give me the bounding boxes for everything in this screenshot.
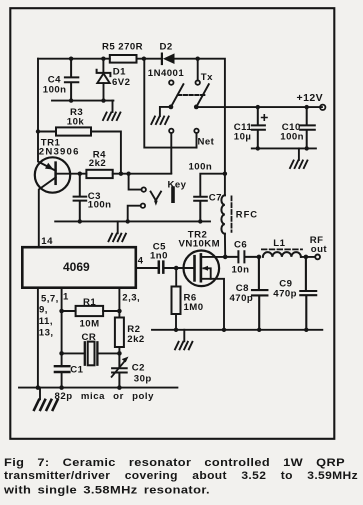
- wire ground stem D1: [112, 101, 114, 112]
- svg-text:Tx: Tx: [201, 72, 213, 83]
- capacitor C7: [194, 197, 207, 222]
- svg-text:1M0: 1M0: [184, 302, 204, 313]
- svg-text:Fig 7: Ceramic resonator contr: Fig 7: Ceramic resonator controlled 1W Q…: [4, 457, 345, 469]
- svg-text:10k: 10k: [67, 116, 85, 127]
- node C11 bottom: [256, 146, 260, 150]
- wire left rail emitter: [38, 59, 56, 171]
- wire Tx contact stub: [197, 59, 199, 81]
- node source bottom: [222, 328, 226, 332]
- wire ground stem C10: [298, 148, 300, 160]
- resistor R4: [86, 170, 112, 178]
- capacitor C3: [74, 174, 87, 222]
- node C7 bottom: [198, 219, 202, 223]
- svg-text:470p: 470p: [230, 293, 254, 304]
- ground D1: [103, 113, 120, 121]
- wire R3 right down to key line: [91, 132, 121, 174]
- wire gate ground rail: [55, 220, 210, 222]
- svg-text:10n: 10n: [232, 264, 250, 275]
- wire R4 right to relay: [113, 173, 172, 175]
- svg-text:with single 3.58MHz resonator.: with single 3.58MHz resonator.: [3, 485, 210, 497]
- wire ground stem PA: [183, 330, 185, 342]
- capacitor C1: [55, 366, 70, 372]
- relay arm right: [196, 84, 209, 107]
- resistor R5: [110, 55, 137, 63]
- resistor R6: [172, 268, 181, 330]
- ground C10: [290, 161, 307, 169]
- svg-text:10M: 10M: [80, 318, 100, 329]
- relay arm left: [171, 84, 184, 107]
- ground relay: [151, 117, 168, 125]
- svg-text:82p mica or poly: 82p mica or poly: [55, 391, 155, 402]
- svg-text:Key: Key: [168, 179, 187, 190]
- svg-text:VN10KM: VN10KM: [179, 238, 221, 249]
- node C4 top: [69, 57, 73, 61]
- ground PA: [175, 342, 192, 350]
- svg-text:D2: D2: [160, 41, 173, 52]
- node C10 top: [305, 105, 309, 109]
- relay contact net right: [194, 129, 198, 133]
- IC 4069 box: [22, 247, 136, 288]
- capacitor C5: [159, 262, 164, 273]
- key jack tip contact: [142, 187, 146, 191]
- node R3 join: [119, 172, 123, 176]
- node C9 bottom: [304, 328, 308, 332]
- transistor TR1: [35, 157, 70, 247]
- wire ground stem mid: [117, 221, 119, 233]
- wire PA ground rail: [152, 329, 322, 331]
- svg-text:L1: L1: [273, 238, 285, 249]
- key plug chevron: [151, 192, 161, 201]
- wire CR left: [62, 352, 85, 354]
- wire ground stem bottom left: [39, 388, 41, 400]
- resistor R1: [76, 306, 104, 316]
- relay common left: [169, 105, 174, 110]
- node R1 right: [117, 309, 122, 314]
- node gate R6: [174, 266, 179, 271]
- svg-text:100n: 100n: [43, 84, 67, 95]
- svg-text:RFC: RFC: [236, 208, 258, 219]
- svg-text:out: out: [311, 244, 328, 255]
- svg-text:6V2: 6V2: [112, 77, 130, 88]
- svg-text:11,: 11,: [39, 316, 53, 327]
- node R3 left: [36, 129, 40, 133]
- wire left net contact drop: [170, 133, 172, 173]
- node filter out: [304, 255, 309, 260]
- node C11 top: [256, 105, 260, 109]
- svg-text:100n: 100n: [280, 131, 304, 142]
- node C1 bottom: [59, 385, 64, 390]
- svg-text:1n0: 1n0: [150, 250, 168, 261]
- wire relay left common to ground: [160, 107, 171, 116]
- node C8 bottom: [257, 328, 261, 332]
- wire R1 right: [103, 310, 119, 312]
- svg-text:470p: 470p: [273, 288, 297, 299]
- wire key tip contact: [129, 174, 142, 190]
- svg-text:2k2: 2k2: [127, 334, 144, 345]
- node CR right: [117, 351, 122, 356]
- wire pin1 lower: [61, 372, 63, 388]
- capacitor C6: [225, 251, 259, 262]
- svg-text:30p: 30p: [134, 373, 152, 384]
- node C3 top: [78, 172, 82, 176]
- node C2 bottom: [117, 385, 122, 390]
- node junction R5-D2: [142, 57, 146, 61]
- node C3 bottom: [78, 219, 82, 223]
- wire C11 C10 ground: [252, 147, 316, 149]
- svg-text:1: 1: [63, 291, 69, 302]
- capacitor C9: [300, 257, 316, 330]
- inductor RFC: [221, 174, 231, 257]
- svg-text:2k2: 2k2: [89, 158, 106, 169]
- capacitor C4: [65, 59, 78, 101]
- svg-text:9,: 9,: [39, 305, 48, 316]
- relay contact net left: [169, 129, 173, 133]
- relay contact top left: [169, 80, 173, 84]
- wire R1 left: [62, 310, 76, 312]
- wire pin 2 3: [118, 288, 120, 318]
- transistor TR2: [184, 250, 226, 329]
- svg-text:C6: C6: [234, 239, 247, 250]
- resonator CR: [85, 342, 120, 366]
- wire +12V rail: [196, 106, 322, 108]
- svg-text:R1: R1: [83, 297, 96, 308]
- node R1 left: [59, 309, 64, 314]
- svg-text:2N3906: 2N3906: [39, 147, 80, 158]
- wire pin1 upper: [61, 288, 63, 367]
- wire net contacts to rail: [144, 59, 196, 148]
- wire R5 to D2: [137, 58, 161, 60]
- capacitor C10: [300, 107, 315, 148]
- svg-text:4069: 4069: [63, 260, 90, 274]
- wire C7 branch: [200, 174, 225, 197]
- key plug arrow: [154, 201, 158, 206]
- svg-text:100n: 100n: [88, 199, 112, 210]
- node pins rail: [36, 385, 41, 390]
- wire TR1 base to R4: [56, 173, 87, 175]
- svg-text:13,: 13,: [39, 328, 54, 339]
- terminal +12V: [320, 105, 325, 110]
- svg-text:1N4001: 1N4001: [148, 68, 185, 79]
- wire C4 D1 bottom: [52, 100, 113, 102]
- svg-text:+12V: +12V: [297, 92, 324, 104]
- ground bottom left: [34, 400, 57, 410]
- zener diode D1: [97, 59, 111, 101]
- wire pins 5 7 9 11 13: [37, 288, 39, 388]
- terminal RF out: [315, 255, 320, 260]
- capacitor C11: [252, 107, 267, 148]
- node C4 bottom: [69, 98, 73, 102]
- svg-text:5,7,: 5,7,: [41, 294, 59, 305]
- svg-text:4: 4: [138, 255, 144, 266]
- node filter in: [257, 255, 262, 260]
- node CR left: [59, 351, 64, 356]
- node D1 top: [101, 57, 105, 61]
- relay link dashed: [178, 94, 205, 96]
- wire pin4: [136, 267, 158, 269]
- ground mid: [109, 234, 126, 242]
- wire L1 to RF out: [301, 256, 315, 258]
- wire key sleeve to ground wire: [128, 206, 141, 222]
- wire D2 to corner and down to RFC node: [175, 59, 225, 172]
- svg-text:Net: Net: [198, 136, 215, 147]
- diode D2: [162, 53, 175, 64]
- svg-text:14: 14: [41, 236, 53, 247]
- node RFC top: [223, 172, 227, 176]
- resistor R2: [115, 318, 124, 354]
- key plug bar: [171, 186, 175, 203]
- trimmer C2: [112, 353, 129, 387]
- svg-text:C7: C7: [209, 192, 222, 203]
- node junction Tx: [196, 57, 200, 61]
- key jack sleeve contact: [141, 204, 145, 208]
- svg-text:10µ: 10µ: [234, 131, 252, 142]
- wire R3 left: [38, 131, 56, 133]
- svg-text:CR: CR: [82, 332, 97, 343]
- node R6 bottom: [174, 328, 178, 332]
- resistor R3: [56, 127, 91, 135]
- svg-text:transmitter/driver covering ab: transmitter/driver covering about 3.52 t…: [4, 470, 358, 482]
- svg-text:R5 270R: R5 270R: [102, 41, 143, 52]
- capacitor C8: [252, 257, 267, 330]
- svg-text:100n: 100n: [189, 161, 213, 172]
- caption: [3, 457, 358, 497]
- svg-text:C1: C1: [70, 364, 83, 375]
- wire right net contact drop: [196, 133, 198, 147]
- inductor L1: [262, 249, 302, 257]
- svg-text:2,3,: 2,3,: [122, 293, 140, 304]
- node key sleeve bottom: [126, 219, 130, 223]
- relay contact Tx top right: [196, 80, 200, 84]
- node C10 bottom: [305, 146, 309, 150]
- wire top rail left: [38, 58, 110, 60]
- wire C5 to gate: [165, 267, 195, 269]
- node D1 bottom: [101, 98, 105, 102]
- svg-text:C2: C2: [132, 362, 145, 373]
- node key join: [126, 172, 130, 176]
- wire bottom left rail: [19, 387, 177, 389]
- relay common right: [194, 105, 199, 110]
- node drain D: [223, 255, 228, 260]
